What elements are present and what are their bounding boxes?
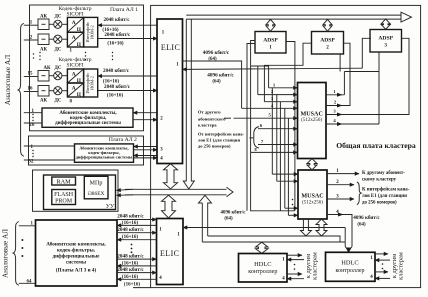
wire ELIC1 to MUSAC1 pin4 (4096) [183,61,242,108]
MUSAC1 right pin3 wire to ADSP3 right [326,38,409,114]
ADSP 1 [255,32,286,54]
MUSAC2 right pin1 wire [327,173,359,175]
SICOFI block 1 AD cell 2 [67,32,83,47]
svg-text:ИОМ-2: ИОМ-2 [90,25,95,39]
UU inner box [44,175,116,210]
svg-text:2048 кбит/с: 2048 кбит/с [117,226,144,233]
ADSP2 bus arrow [323,19,332,31]
wire from other cluster to MUSAC1 pin5 [234,117,298,119]
wire tap to MUSAC1 pin2 [257,66,259,95]
svg-text:HDLC: HDLC [341,259,358,266]
svg-text:кодек-фильтры,: кодек-фильтры, [57,246,96,253]
svg-text:4096 кбит/с: 4096 кбит/с [207,72,234,79]
svg-text:А: А [72,71,76,77]
svg-text:кластерам: кластерам [398,252,405,280]
hollow arrow ELIC1 to central bus [164,164,178,189]
svg-text:контроллер: контроллер [248,269,277,275]
svg-text:до 256 номеров): до 256 номеров) [198,144,231,149]
analog lines brace bottom [13,222,19,286]
svg-text:АК: АК [40,48,48,53]
svg-text:контроллер: контроллер [335,268,364,274]
svg-text:1: 1 [269,45,272,51]
wire E1 to MUSAC1 pin6 [258,128,298,130]
svg-text:4096 кбит/с: 4096 кбит/с [353,214,380,221]
svg-text:От другого: От другого [198,110,221,115]
outer cluster box [151,5,421,287]
svg-text:АК: АК [40,99,48,104]
HDLC controller 1 [239,254,288,283]
MUSAC 1 [298,83,327,159]
wire 2048 out of SICOFI2 to ELIC [98,90,158,92]
AK square 1 [38,19,49,30]
wire into ELIC2 right (from box edge) [344,228,346,247]
channel lines to right [202,236,345,242]
vertical to MUSAC2 pin2 [276,95,278,182]
vertical to MUSAC2 pin3 [284,108,286,208]
svg-text:(64): (64) [224,216,233,221]
svg-text:ДС: ДС [55,99,62,104]
svg-text:ДС: ДС [55,15,62,20]
svg-text:К интерфейсам кана-: К интерфейсам кана- [362,187,410,192]
wire box1 to ELIC pin2 [133,119,157,121]
svg-text:(16+16): (16+16) [124,283,141,288]
wire ADSP1 right down [286,42,295,211]
analog lines brace top [18,23,24,156]
svg-text:MUSAC: MUSAC [301,193,323,199]
AK square 4 [38,86,49,97]
wire line 2 [24,39,38,41]
ADSP 2 [312,32,344,55]
svg-text:ИОМ-2: ИОМ-2 [90,76,95,90]
svg-text:А: А [72,85,76,91]
DS hybrid 4 [54,87,62,95]
wire to ELIC1 (4096 return) [362,38,371,68]
svg-text:2048 кбит/с: 2048 кбит/с [117,266,144,273]
AK square 2 [38,34,49,45]
svg-text:кластера: кластера [198,123,217,128]
wire ADSP1 left stub B down [247,44,255,211]
SICOFI block 1 IOM-2 interface strip [84,17,98,47]
subscriber box 2 [75,144,134,162]
SICOFI block 1 AD cell 1 [67,17,83,32]
svg-text:(512x256): (512x256) [301,118,322,123]
wire line 1 [24,24,38,26]
wire line 15 [24,76,38,78]
svg-text:Плата АЛ 1: Плата АЛ 1 [110,7,138,13]
MUSAC2 bottom hollow arrow left [300,219,311,236]
svg-text:ДС: ДС [55,66,62,71]
MUSAC2 right pin4 wire to HDLC2 [327,215,352,247]
svg-text:15: 15 [28,72,33,77]
svg-text:2: 2 [326,45,329,51]
svg-text:ELIC: ELIC [160,249,179,258]
vertical to MUSAC2 pin4 [287,118,289,215]
hollow arrow channel up to central bus [199,195,212,242]
wire MUSAC1 pin8 from ADSP1 stub [251,151,298,153]
wire box2 to ELIC pin4 [134,157,158,159]
svg-text:2048 кбит/с: 2048 кбит/с [117,253,144,260]
MPr i386EX box [84,176,108,199]
wire ELIC to box2 (lower) [134,155,158,157]
svg-text:4096 кбит/с: 4096 кбит/с [203,49,230,56]
svg-text:кластерам: кластерам [312,252,319,280]
DS hybrid 3 [54,72,62,80]
E1 brace [250,137,254,139]
wire ADSP3 bottom down-left bus [340,52,379,124]
ADSP 3 [370,30,402,53]
svg-text:лов Е1 (для станции: лов Е1 (для станции [362,194,407,199]
wire ADSP2 left to MUSAC1 pin3 [264,43,311,101]
svg-text:2048 кбит/с: 2048 кбит/с [103,67,130,74]
svg-text:HDLC: HDLC [254,261,271,268]
SICOFI block 2 AD cell 2 [67,83,83,97]
MUSAC2 bottom hollow arrow right (double) [316,219,327,236]
wire box2 to ELIC pin3 [134,149,158,151]
wire tap to MUSAC1 pin1 [251,66,269,88]
svg-text:Абонентские комплекты,: Абонентские комплекты, [46,240,106,247]
svg-text:2048 кбит/с: 2048 кбит/с [117,213,144,220]
svg-text:MUSAC: MUSAC [301,111,323,117]
svg-text:Аналоговые АЛ: Аналоговые АЛ [3,55,12,106]
svg-text:Общая плата кластера: Общая плата кластера [336,141,416,150]
FLASH PROM box [52,190,76,205]
svg-text:От интерфейсов кана-: От интерфейсов кана- [198,131,245,136]
RAM box [52,177,76,185]
svg-text:PROM: PROM [55,199,73,205]
top bus hollow arrow [186,12,411,22]
wire ADSP1 left stub A down [251,41,255,153]
dots between SICOFI groups [33,52,113,60]
bottom long wire [133,287,151,289]
svg-text:ADSP: ADSP [320,38,335,44]
svg-text:Плата АЛ 2: Плата АЛ 2 [109,137,137,143]
svg-text:абонентского: абонентского [198,116,226,121]
MUSAC2 right pin3 wire [327,198,354,200]
MUSAC2 right pin2 wire [327,184,354,186]
central bus left arrows into UU [117,189,134,190]
ADSP1 bus arrow [266,19,275,31]
hollow arrow central bus to ELIC2 [162,195,176,218]
svg-text:2048 кбит/с: 2048 кбит/с [104,83,131,90]
svg-text:(Платы АЛ 3 и 4): (Платы АЛ 3 и 4) [56,266,97,273]
svg-text:(64): (64) [357,222,366,227]
svg-text:(16+16): (16+16) [107,41,124,46]
MUSAC1 right pin1 wire [343,72,345,95]
wire 2048 into SICOFI2 [98,75,158,77]
ELIC 2 block [157,219,184,285]
svg-text:ADSP: ADSP [263,38,278,44]
svg-text:лов Е1 (для станции: лов Е1 (для станции [198,137,241,142]
svg-text:SICOFI: SICOFI [66,11,83,17]
svg-text:до 256 номеров): до 256 номеров) [362,201,397,206]
HDLC controller 2 [326,252,376,281]
svg-text:МПр: МПр [90,180,103,186]
subscriber box 3-4 (bottom left) [36,220,118,286]
MUSAC 2 [298,170,327,219]
svg-text:системы: системы [66,259,86,265]
svg-text:FLASH: FLASH [54,192,74,198]
svg-text:ELIC: ELIC [161,43,180,52]
wire ELIC to box2 (upper) [134,146,158,148]
svg-text:ADSP: ADSP [378,36,393,42]
extra vertical from pin3 wire [279,102,281,211]
hollow arrow channel to HDLC1 [256,242,269,253]
vertical hollow arrow from top bus to central bus [183,19,194,189]
ADSP3 bus arrow [381,19,390,29]
hollow arrow MUSAC1-MUSAC2 [307,159,317,170]
MUSAC2 left dots [292,199,294,206]
svg-text:(16+16): (16+16) [107,94,124,99]
svg-text:16: 16 [28,87,33,92]
svg-text:(512x256): (512x256) [302,200,323,205]
MUSAC1 right pin2 wire to ADSP2 right [326,43,350,105]
svg-text:скому кластеру: скому кластеру [362,178,397,183]
svg-text:(64): (64) [208,57,217,62]
wire 2048 into SICOFI1 [98,24,158,26]
MUSAC1 right pin4 wire [326,123,379,125]
subscriber box 1 [42,108,133,127]
svg-text:АК: АК [40,15,48,20]
svg-text:2048 кбит/с: 2048 кбит/с [104,31,131,38]
svg-text:3: 3 [384,43,387,49]
svg-text:(64): (64) [212,80,221,85]
central bus double arrow [125,187,233,197]
brace for E1 out [357,182,361,205]
HDLC1 right arrows [287,254,302,256]
wire E1 to MUSAC1 pin7 [258,144,298,146]
UU control unit outer box [33,170,119,211]
svg-text:4096 кбит/с: 4096 кбит/с [221,210,247,215]
svg-text:дифференциальные системы: дифференциальные системы [55,121,121,126]
svg-text:RAM: RAM [56,179,71,186]
ELIC 1 block [157,19,183,164]
svg-text:К другому абонент-: К другому абонент- [362,171,405,176]
svg-text:2048 кбит/с: 2048 кбит/с [104,16,131,23]
SICOFI block 2 AD cell 1 [67,69,83,83]
AK square 3 [38,71,49,82]
svg-text:ДС: ДС [55,48,62,53]
wire line 16 [24,91,38,93]
DS hybrid 2 [54,35,62,43]
svg-text:16: 16 [30,123,35,128]
plate AL2 box [29,136,144,165]
svg-text:Аналоговые АЛ: Аналоговые АЛ [2,229,10,278]
plate AL1 box [30,5,144,131]
SICOFI block 2 IOM-2 interface strip [84,69,98,97]
svg-text:i386EX: i386EX [88,191,105,197]
svg-text:дифференциальные системы: дифференциальные системы [76,155,133,160]
wire 2048 out of SICOFI1 to ELIC [98,38,158,40]
svg-text:УУ: УУ [106,204,115,210]
svg-text:АК: АК [44,66,52,71]
svg-text:А: А [72,20,76,26]
DS hybrid 1 [54,20,62,28]
dots between pairs [131,244,133,254]
svg-text:дифференциальные: дифференциальные [53,252,101,259]
HDLC2 right arrows [375,253,388,255]
svg-text:А: А [72,35,76,41]
wire ELIC to box1 [133,112,157,114]
svg-text:SICOFI: SICOFI [66,63,83,69]
vertical to MUSAC2 pin1 [271,88,273,174]
